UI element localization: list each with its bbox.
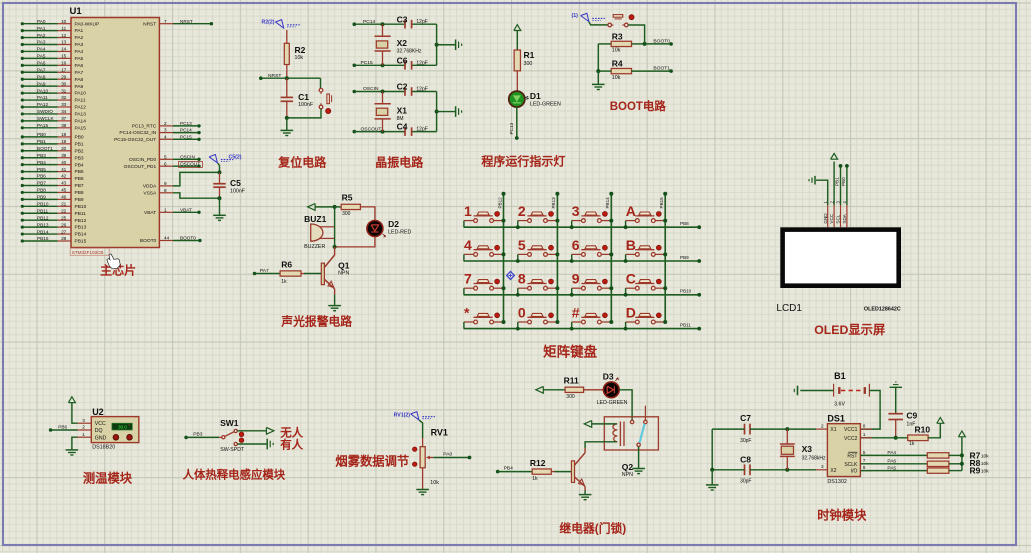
ground of BOOT divider (592, 83, 605, 85)
svg-text:PB4: PB4 (504, 466, 514, 472)
svg-text:X3: X3 (802, 444, 813, 454)
svg-text:PA1: PA1 (75, 28, 84, 34)
ground below U2 (66, 449, 79, 451)
svg-text:13: 13 (61, 40, 67, 45)
wire button 6 to row PB9 (571, 254, 573, 261)
junction C7/X3 top (785, 427, 789, 431)
svg-text:VSSA: VSSA (143, 190, 157, 196)
wire relay bottom contact to ground (638, 447, 640, 469)
DS1 pin 2 X1 (816, 428, 827, 430)
svg-text:PB12: PB12 (37, 215, 49, 220)
svg-text:X1: X1 (397, 105, 408, 115)
svg-text:PA4: PA4 (75, 49, 84, 55)
U1 pin 38 net PA15 (wire, stub, junction, labels) (22, 127, 57, 129)
svg-text:PB7: PB7 (75, 183, 84, 189)
svg-text:45: 45 (61, 188, 67, 193)
svg-text:BOOT1: BOOT1 (37, 146, 53, 151)
ground below relay (632, 468, 645, 470)
U1 pin 41 net PB5 (wire, stub, junction, labels) (22, 171, 57, 173)
node PA7 + wire (253, 272, 257, 276)
svg-text:100nF: 100nF (230, 189, 246, 195)
svg-text:R12: R12 (530, 458, 546, 468)
svg-text:R3: R3 (612, 32, 623, 42)
U1 pin 21 net PB10 (wire, stub, junction, labels) (22, 205, 57, 207)
svg-text:PA6: PA6 (37, 61, 46, 66)
svg-text:RV1: RV1 (431, 427, 448, 437)
svg-text:PB1: PB1 (835, 177, 840, 186)
svg-text:8: 8 (863, 424, 866, 429)
wire NRST to reset button (320, 78, 322, 88)
svg-text:R6: R6 (281, 260, 292, 270)
svg-text:PB14: PB14 (37, 229, 49, 234)
svg-text:6: 6 (572, 237, 580, 253)
svg-text:X1: X1 (830, 427, 836, 433)
ground clock module (706, 484, 719, 486)
svg-text:PA0: PA0 (37, 19, 46, 24)
relay moving blade (cyan) (639, 424, 644, 444)
svg-text:10k: 10k (612, 75, 621, 81)
svg-text:PC15: PC15 (180, 134, 192, 139)
svg-text:SW1: SW1 (220, 418, 239, 428)
node PB3 + wire (184, 436, 188, 440)
svg-text:C: C (626, 271, 636, 287)
net BOOT0 wire + label (645, 43, 672, 45)
svg-text:38: 38 (61, 123, 67, 128)
BOOT button red dot (629, 15, 634, 20)
junction PC15/crystal (381, 63, 385, 67)
U2 pin 1 GND stub (78, 436, 92, 438)
svg-text:PB10: PB10 (680, 289, 692, 294)
svg-text:40: 40 (61, 160, 67, 165)
U1 pin 5 OSCIN_PD0 (wire + net label OSCIN) (159, 158, 173, 160)
U1 pin 34 net SWDIO (wire, stub, junction, labels) (22, 113, 57, 115)
svg-text:PA8: PA8 (37, 74, 46, 79)
resistor R9 10k (927, 468, 949, 473)
svg-text:2: 2 (821, 424, 824, 429)
junction node C5 bottom (218, 196, 222, 200)
svg-text:9: 9 (164, 181, 167, 186)
U2 DS18B20 body (91, 417, 139, 443)
net OSCIN wire (353, 90, 357, 94)
svg-text:PA3: PA3 (37, 40, 46, 45)
svg-text:PB8: PB8 (680, 221, 689, 226)
wire button 2 to row PB8 (517, 221, 519, 228)
U1 pin 32 net PA11 (wire, stub, junction, labels) (22, 99, 57, 101)
svg-text:PA9: PA9 (37, 81, 46, 86)
DS1 pin 3 X2 (816, 469, 827, 471)
relay NO contact + stub (644, 406, 646, 421)
svg-text:32.768kHz: 32.768kHz (802, 455, 826, 461)
svg-text:PB11: PB11 (680, 322, 691, 327)
ground below Q2 (579, 494, 592, 496)
svg-text:PB15: PB15 (659, 197, 664, 209)
U1 pin 16 net PA6 (wire, stub, junction, labels) (22, 64, 57, 66)
svg-text:PB6: PB6 (37, 174, 46, 179)
svg-text:PA3: PA3 (75, 42, 84, 48)
junction button 8 to column PB13 (555, 286, 559, 290)
resistor R4 10k (611, 68, 631, 73)
reset button red actuator dot (326, 108, 331, 113)
junction button # to column PB14 (609, 320, 613, 324)
DS1 DS1302 body (827, 424, 860, 477)
DS1 pin 8 VCC1 (860, 428, 871, 430)
U1 pin 44 BOOT0 (wire + net label) (159, 240, 173, 242)
U1 value STM32F103CB (boxed) (70, 248, 109, 255)
wire D3 to relay common contact (619, 390, 632, 420)
svg-text:矩阵键盘: 矩阵键盘 (543, 344, 597, 360)
svg-text:21: 21 (61, 202, 67, 207)
svg-text:32.768KHz: 32.768KHz (397, 49, 422, 55)
crystal X3 32.768kHz (786, 429, 788, 444)
svg-text:R11: R11 (564, 376, 579, 386)
svg-text:1: 1 (82, 432, 85, 437)
wire to ground (597, 71, 599, 84)
svg-text:46: 46 (61, 195, 67, 200)
U1 pin 39 net PB3 (wire, stub, junction, labels) (22, 157, 57, 159)
ground (rotated right) (455, 106, 457, 117)
wire R10 to power (928, 424, 940, 438)
wire D1 to PC13 node (516, 107, 518, 138)
wire buzzer bottom to collector node (334, 227, 336, 247)
resistor R3 10k (598, 43, 611, 45)
net PA0 wire + node (433, 457, 469, 459)
U1 pin 15 net PA5 (wire, stub, junction, labels) (22, 57, 57, 59)
svg-text:OSCIN_PD0: OSCIN_PD0 (129, 157, 157, 163)
svg-text:4: 4 (464, 237, 472, 253)
svg-text:DS18B20: DS18B20 (92, 444, 115, 450)
svg-text:PB8: PB8 (75, 190, 84, 196)
svg-text:3: 3 (82, 418, 85, 423)
wire R6 to Q1 base (301, 273, 304, 275)
RV1 wiper arrow (426, 456, 430, 460)
svg-text:R4: R4 (612, 58, 623, 68)
reset push button (319, 88, 323, 92)
wire SW1 top contact to power (right arrow) (237, 430, 266, 432)
svg-text:10k: 10k (981, 469, 989, 475)
crystal X2 32.768KHz (382, 24, 384, 36)
svg-text:16: 16 (61, 61, 67, 66)
svg-text:OSCOUT_PD1: OSCOUT_PD1 (124, 164, 157, 170)
relay common contact (630, 420, 633, 423)
keypad column net PB15 (vertical wire + top node) (664, 194, 666, 322)
wire power to R11 (543, 389, 565, 391)
svg-text:29: 29 (61, 74, 67, 79)
svg-text:C3: C3 (397, 14, 408, 24)
svg-text:7: 7 (464, 271, 472, 287)
junction BOOT0 (643, 42, 647, 46)
wire button D to row PB11 (625, 322, 627, 329)
svg-text:PB0: PB0 (37, 132, 46, 137)
wire LCD1 SCL to node PB1 (840, 166, 842, 205)
svg-text:27: 27 (61, 229, 67, 234)
svg-text:VCC: VCC (95, 421, 106, 427)
resistor R2 10k (284, 43, 289, 64)
svg-text:PB5: PB5 (37, 167, 46, 172)
svg-text:PB13: PB13 (75, 225, 87, 231)
wire junction to buzzer top (334, 207, 336, 227)
LCD1 pin 2 VCC (stub + labels) (833, 205, 835, 227)
svg-text:PC15-OSC32_OUT: PC15-OSC32_OUT (114, 137, 156, 143)
power terminal above pullups (958, 431, 965, 437)
svg-text:PB4: PB4 (37, 160, 46, 165)
svg-text:PB5: PB5 (75, 169, 84, 175)
wire D2 to collector node (335, 237, 375, 247)
U1 pin 10 net PA0 (wire, stub, junction, labels) (22, 23, 57, 25)
svg-text:*: * (464, 304, 470, 320)
U1 pin 14 net PA4 (wire, stub, junction, labels) (22, 50, 57, 52)
wire C8 row (712, 469, 744, 471)
svg-text:3: 3 (164, 128, 167, 133)
crystal X1 8M (382, 92, 384, 104)
svg-text:R5: R5 (342, 192, 353, 202)
wire flag to C5 node (218, 163, 220, 172)
LCD1 OLED display body (780, 227, 901, 288)
resistor R5 300 (335, 206, 342, 208)
junction OSCIN/crystal (381, 90, 385, 94)
U1 pin 43 net PB7 (wire, stub, junction, labels) (22, 184, 57, 186)
DS1 pin 5 RST (860, 454, 871, 456)
svg-text:2: 2 (164, 121, 167, 126)
U1 pin 22 net PB11 (wire, stub, junction, labels) (22, 212, 57, 214)
wire LCD1 GND to ground (816, 180, 828, 205)
wire button 1 to row PB8 (463, 221, 465, 228)
svg-text:SW-SPDT: SW-SPDT (220, 447, 245, 453)
net BOOT1 wire + label (632, 70, 672, 72)
svg-text:NRST: NRST (180, 19, 193, 24)
U1 pin 1 VBAT (wire + net label) (159, 211, 173, 213)
wire button 5 to row PB9 (517, 254, 519, 261)
svg-text:X2: X2 (397, 38, 408, 48)
svg-text:R2: R2 (295, 45, 306, 55)
net PC14 wire (353, 22, 357, 26)
node PB4 + wire (496, 470, 500, 474)
svg-text:VCC2: VCC2 (844, 436, 858, 442)
junction pullup R8 (960, 462, 964, 466)
U1 pin 9 VDDA wire to C5 top (159, 185, 173, 187)
svg-text:0: 0 (518, 304, 526, 320)
junction button 2 to column PB13 (555, 219, 559, 223)
svg-text:PA0: PA0 (443, 451, 452, 457)
resistor R10 1k (908, 435, 928, 441)
keypad column net PB13 (vertical wire + top node) (556, 194, 558, 322)
svg-text:31: 31 (61, 88, 67, 93)
U2 internal button (right) (127, 435, 133, 441)
svg-text:RV1(2): RV1(2) (394, 412, 411, 418)
svg-text:3: 3 (572, 203, 580, 219)
wire RV1 bottom to ground (422, 468, 424, 490)
power terminal above R10 (937, 418, 944, 424)
junction button 0 to column PB13 (555, 320, 559, 324)
junction PC14/crystal (381, 22, 385, 26)
U1 pin 46 net PB9 (wire, stub, junction, labels) (22, 198, 57, 200)
svg-text:VCC1: VCC1 (844, 427, 858, 433)
transistor Q1 NPN (334, 247, 336, 255)
svg-text:R1: R1 (524, 50, 535, 60)
svg-text:人体热释电感应模块: 人体热释电感应模块 (183, 467, 286, 481)
svg-text:10k: 10k (981, 453, 989, 459)
power terminal above U2 (68, 397, 75, 403)
wire VCC2 to R10 (860, 437, 907, 439)
LED D3 LED-GREEN (off) (603, 382, 619, 398)
junction button 6 to column PB14 (609, 252, 613, 256)
U1 pin 17 net PA7 (wire, stub, junction, labels) (22, 71, 57, 73)
svg-text:SCL: SCL (836, 214, 841, 223)
svg-text:PA2: PA2 (75, 35, 84, 41)
svg-text:41: 41 (61, 167, 67, 172)
svg-text:PC14: PC14 (180, 128, 192, 133)
U1 pin 19 net PB1 (wire, stub, junction, labels) (22, 143, 57, 145)
junction button B to column PB15 (663, 252, 667, 256)
svg-text:30: 30 (61, 81, 67, 86)
svg-text:PA7: PA7 (75, 70, 84, 76)
svg-text:30pF: 30pF (740, 438, 751, 444)
U1 main chip STM32F103CB body (71, 18, 159, 248)
relay NC/bottom contact (637, 443, 640, 446)
wire button 8 to row PB10 (517, 288, 519, 295)
junction button D to column PB15 (663, 320, 667, 324)
svg-text:VCC: VCC (829, 213, 834, 223)
svg-text:R2(2): R2(2) (262, 20, 275, 26)
svg-text:20: 20 (61, 146, 67, 151)
power terminal (left arrow) relay LED branch (536, 386, 544, 393)
capacitor C6 12pF (404, 61, 406, 70)
U1 pin 18 net PB0 (wire, stub, junction, labels) (22, 136, 57, 138)
svg-text:5: 5 (518, 237, 526, 253)
junction node C5 top (218, 170, 222, 174)
U1 pin 27 net PB14 (wire, stub, junction, labels) (22, 233, 57, 235)
svg-text:PA6: PA6 (887, 459, 896, 465)
svg-text:C5: C5 (230, 178, 241, 188)
svg-text:BOOT0: BOOT0 (140, 238, 157, 244)
svg-text:7: 7 (164, 19, 167, 24)
svg-text:D2: D2 (388, 219, 399, 229)
svg-text:PA2: PA2 (37, 33, 46, 38)
wire button 0 to row PB11 (517, 322, 519, 329)
wire SW1 bottom contact to ground (237, 443, 266, 445)
wire R3 left to R4 left (597, 44, 599, 71)
LED D2 LED-RED (367, 221, 383, 237)
net PA5 wire I/O (860, 470, 927, 472)
svg-text:11: 11 (61, 26, 66, 31)
svg-text:PB15: PB15 (37, 236, 49, 241)
capacitor C2 12pF (404, 87, 406, 96)
junction button 5 to column PB13 (555, 252, 559, 256)
svg-text:C9: C9 (906, 411, 917, 421)
svg-text:42: 42 (61, 174, 67, 179)
U1 pin 13 net PA3 (wire, stub, junction, labels) (22, 44, 57, 46)
svg-text:PB12: PB12 (497, 197, 502, 209)
svg-text:PC13_RTC: PC13_RTC (132, 124, 157, 130)
svg-text:BOOT0: BOOT0 (653, 38, 670, 44)
junction button * to column PB12 (502, 320, 506, 324)
svg-text:NPN: NPN (338, 271, 349, 277)
svg-text:PA15: PA15 (37, 123, 49, 128)
U1 pin 26 net PB13 (wire, stub, junction, labels) (22, 226, 57, 228)
svg-text:晶振电路: 晶振电路 (375, 154, 424, 169)
svg-text:PA11: PA11 (37, 95, 48, 100)
wire flag to R2 (286, 30, 288, 43)
junction button C to column PB15 (663, 286, 667, 290)
svg-text:43: 43 (61, 181, 67, 186)
svg-text:PB8: PB8 (37, 188, 46, 193)
svg-text:PA5: PA5 (887, 465, 896, 471)
svg-text:PB15: PB15 (75, 239, 87, 245)
LCD1 pin 3 SCL (stub + labels) (840, 205, 842, 227)
svg-text:1k: 1k (532, 476, 538, 482)
wire button # to row PB11 (571, 322, 573, 329)
svg-text:C1: C1 (298, 92, 309, 102)
keypad column net PB12 (vertical wire + top node) (503, 194, 505, 322)
svg-text:PA4: PA4 (887, 450, 896, 456)
svg-text:PB12: PB12 (75, 218, 87, 224)
svg-text:PB14: PB14 (75, 232, 87, 238)
svg-text:PB2: PB2 (75, 148, 84, 154)
svg-text:C5(2): C5(2) (229, 155, 242, 161)
capacitor C1 100nF (286, 78, 288, 97)
svg-text:A: A (626, 203, 636, 219)
junction button 1 to column PB12 (502, 219, 506, 223)
relay RL body (604, 417, 658, 450)
svg-text:5: 5 (164, 154, 167, 159)
junction right vertical / ground (435, 110, 439, 114)
svg-text:PB13: PB13 (551, 197, 556, 209)
junction button 3 to column PB14 (609, 219, 613, 223)
off-page flag R2(2) (275, 20, 283, 28)
net OSCOUT wire (353, 130, 357, 134)
ground (rotated right) (455, 39, 457, 50)
svg-text:PB9: PB9 (680, 255, 689, 260)
svg-text:PC14-OSC32_IN: PC14-OSC32_IN (119, 130, 156, 136)
svg-text:10k: 10k (612, 48, 621, 54)
wire LCD1 VCC to power (833, 162, 835, 206)
svg-text:28: 28 (61, 236, 67, 241)
wire button B to row PB9 (625, 254, 627, 261)
U1 pin 33 net PA12 (wire, stub, junction, labels) (22, 106, 57, 108)
svg-text:时钟模块: 时钟模块 (817, 507, 867, 522)
wire C7 row (712, 428, 744, 430)
power terminal (left arrow) alarm (308, 204, 316, 211)
svg-text:SWDIO: SWDIO (37, 109, 53, 114)
keypad column net PB14 (vertical wire + top node) (610, 194, 612, 322)
svg-text:#: # (572, 304, 580, 320)
resistor R8 10k (927, 461, 949, 466)
svg-text:无人: 无人 (279, 426, 303, 440)
U2 pin 2 DQ stub + net PB6 (49, 428, 53, 432)
ground (rotated) 有人 branch (266, 439, 268, 450)
wire button A to row PB8 (625, 221, 627, 228)
svg-text:PA5: PA5 (75, 56, 84, 62)
net PC15 wire (353, 64, 357, 68)
svg-text:BUZ1: BUZ1 (304, 214, 326, 224)
U1 pin 11 net PA1 (wire, stub, junction, labels) (22, 30, 57, 32)
svg-text:程序运行指示灯: 程序运行指示灯 (481, 154, 565, 169)
svg-text:OLED显示屏: OLED显示屏 (814, 323, 885, 337)
svg-text:PA5: PA5 (37, 54, 46, 59)
BOOT push button (horizontal) (608, 23, 612, 27)
LED D1 LED-GREEN (509, 91, 525, 107)
U2 internal button (left) (113, 435, 119, 441)
U2 pin 3 VCC stub (78, 422, 92, 424)
svg-text:6: 6 (164, 161, 167, 166)
junction R2/C1/button (285, 76, 289, 80)
wire flag to boot button (589, 22, 610, 25)
svg-text:PB3: PB3 (37, 153, 46, 158)
relay core bars (619, 422, 621, 447)
RV1 red dot up (413, 447, 417, 451)
svg-text:LED-GREEN: LED-GREEN (597, 400, 628, 406)
svg-text:复位电路: 复位电路 (277, 154, 327, 169)
svg-text:PA4: PA4 (37, 47, 46, 52)
